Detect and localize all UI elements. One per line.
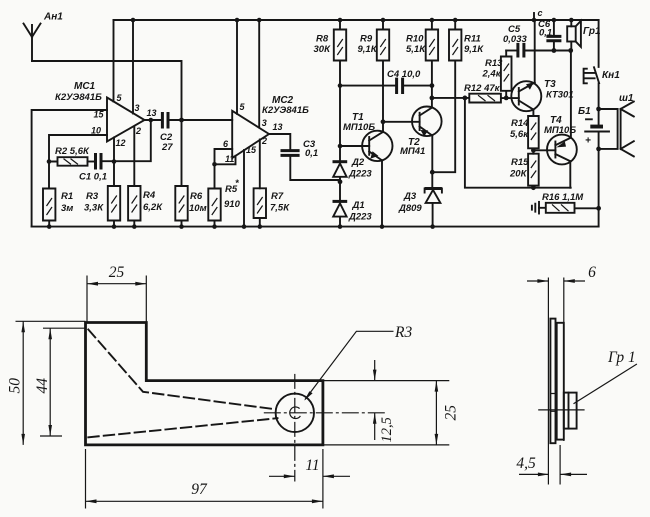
svg-text:44: 44: [34, 378, 51, 394]
svg-text:97: 97: [191, 481, 208, 498]
svg-text:20К: 20К: [509, 169, 528, 180]
svg-text:Д223: Д223: [348, 212, 372, 223]
svg-text:0,1: 0,1: [539, 28, 552, 39]
transistor Q4 T4 MP10B: [533, 115, 576, 164]
wire bottom ground bus: [32, 226, 599, 228]
svg-text:К2УЭ841Б: К2УЭ841Б: [262, 105, 309, 116]
svg-text:3: 3: [135, 103, 140, 113]
svg-text:Д223: Д223: [348, 169, 372, 180]
svg-text:КТ301: КТ301: [546, 90, 574, 101]
diode D2 D223: [333, 157, 373, 201]
svg-text:R6: R6: [190, 191, 203, 202]
svg-text:+: +: [585, 136, 591, 147]
svg-text:15: 15: [246, 145, 257, 155]
svg-text:R2 5,6К: R2 5,6К: [55, 146, 90, 157]
svg-text:R12 47к: R12 47к: [464, 83, 501, 94]
svg-text:4,5: 4,5: [516, 455, 536, 472]
svg-text:15: 15: [93, 110, 104, 120]
wire MC2 pin 2 to R7: [260, 136, 267, 188]
speaker magnet side view: [564, 393, 577, 429]
wire T3 collector to bus: [532, 18, 537, 83]
svg-text:R15: R15: [511, 157, 529, 168]
svg-text:7,5К: 7,5К: [270, 203, 290, 214]
wire antenna to C2 node vertical: [32, 61, 182, 186]
svg-text:27: 27: [161, 142, 173, 153]
resistor R5: [208, 178, 240, 229]
wire MC2 pin 3 to bus: [257, 18, 267, 128]
ground symbol: [532, 202, 539, 214]
svg-text:2,4к: 2,4к: [482, 69, 502, 80]
side view plate lines: [548, 278, 563, 485]
dim 44: [34, 328, 86, 436]
resistor R14: [510, 110, 539, 154]
speaker Gr1: [567, 18, 601, 51]
hole center lines: [264, 374, 387, 482]
transistor Q2 T2 MP41: [383, 107, 442, 158]
connector Sh1: [599, 93, 634, 156]
svg-text:R16 1,1М: R16 1,1М: [542, 192, 584, 203]
svg-text:6: 6: [588, 264, 596, 281]
leader R3: [304, 324, 412, 401]
svg-text:12,5: 12,5: [379, 417, 395, 442]
wire R12 node to emitter line: [465, 98, 571, 190]
svg-text:R14: R14: [511, 118, 529, 129]
side view center line: [538, 409, 584, 411]
resistor R9: [358, 18, 390, 132]
capacitor C2: [160, 112, 232, 153]
svg-text:910: 910: [224, 199, 241, 210]
dim 11: [269, 457, 350, 478]
svg-text:С1 0,1: С1 0,1: [79, 172, 107, 183]
resistor R10: [406, 18, 438, 108]
resistor R7: [254, 188, 291, 229]
svg-text:Т3: Т3: [544, 79, 556, 90]
resistor R16: [539, 192, 599, 213]
resistor R12: [432, 83, 519, 103]
resistor R8: [314, 18, 347, 162]
diode D1 D223: [333, 200, 373, 229]
svg-text:10м: 10м: [189, 203, 207, 214]
svg-text:12: 12: [116, 138, 126, 148]
svg-text:R9: R9: [360, 34, 373, 45]
battery B1: [578, 106, 609, 227]
svg-text:R3: R3: [394, 324, 412, 341]
svg-text:50: 50: [7, 378, 24, 394]
svg-text:11: 11: [225, 154, 234, 164]
wire MC1 pin 13 output node: [145, 108, 162, 122]
wire MC2 pin 5 to bus: [235, 18, 246, 114]
svg-text:МП41: МП41: [400, 146, 425, 157]
bracket bend line lower dashed: [88, 418, 277, 437]
svg-text:Д2: Д2: [351, 157, 365, 168]
svg-text:5,6к: 5,6к: [510, 129, 529, 140]
svg-text:Д1: Д1: [352, 200, 365, 211]
svg-text:0,033: 0,033: [503, 34, 527, 45]
wire MC2 pin 13 output: [269, 122, 290, 150]
wire MC1 pin 2 to R4: [134, 126, 141, 186]
resistor R1: [43, 162, 73, 229]
svg-text:13: 13: [273, 122, 283, 132]
capacitor C4: [340, 69, 432, 94]
wire MC1 pin 5 to bus: [114, 20, 123, 103]
dim 4,5: [516, 455, 587, 476]
svg-text:Ан1: Ан1: [43, 12, 63, 23]
resistor R15: [509, 154, 539, 188]
svg-text:R8: R8: [316, 34, 329, 45]
op-amp U1 MC1 K2UE841B: [55, 81, 145, 142]
svg-text:МП10Б: МП10Б: [343, 122, 375, 133]
svg-text:6,2К: 6,2К: [143, 202, 163, 213]
diode D3 D809 zener: [398, 189, 442, 229]
svg-text:С4 10,0: С4 10,0: [387, 69, 421, 80]
resistor R2: [49, 146, 90, 166]
resistor R4: [128, 186, 163, 229]
svg-text:Д3: Д3: [403, 191, 417, 202]
svg-text:25: 25: [443, 405, 460, 421]
capacitor C6: [538, 18, 561, 51]
svg-text:3: 3: [262, 118, 267, 128]
svg-text:5,1К: 5,1К: [406, 44, 426, 55]
svg-text:К2УЭ841Б: К2УЭ841Б: [55, 92, 102, 103]
svg-text:2: 2: [261, 136, 267, 146]
side view plate body: [550, 319, 563, 444]
antenna An1: [24, 12, 64, 62]
svg-text:9,1К: 9,1К: [358, 44, 378, 55]
transistor Q3 T3 KT301: [511, 79, 573, 111]
wire MC1 pin 12: [112, 138, 126, 164]
svg-text:10: 10: [91, 126, 101, 136]
svg-text:0,1: 0,1: [305, 148, 318, 159]
wire feedback output to C1: [102, 120, 151, 161]
wire MC1 pin 15 to ground: [32, 110, 107, 227]
svg-text:с: с: [538, 8, 543, 18]
svg-text:R7: R7: [271, 191, 284, 202]
wire MC2 pin 15 to ground: [242, 145, 257, 229]
wire T2 emitter: [430, 136, 435, 189]
op-amp U2 MC2 K2UE841B: [232, 95, 309, 158]
svg-text:R13: R13: [485, 58, 503, 69]
svg-text:Гр 1: Гр 1: [607, 349, 636, 366]
svg-text:R10: R10: [406, 34, 424, 45]
dim 25 top: [87, 264, 146, 381]
bracket outline left view: [86, 323, 323, 445]
svg-text:R1: R1: [61, 191, 73, 202]
svg-text:Б1: Б1: [578, 106, 591, 117]
transistor Q1 T1 MP10B: [340, 112, 392, 161]
svg-text:R11: R11: [464, 34, 481, 45]
svg-text:МС1: МС1: [74, 81, 96, 92]
wire T1 emitter to ground: [380, 160, 385, 229]
bracket bend line upper dashed: [88, 330, 273, 410]
resistor R11: [432, 18, 484, 173]
dim 97: [86, 449, 323, 509]
svg-text:11: 11: [305, 457, 319, 474]
resistor R3: [84, 162, 120, 229]
leader Gr1: [574, 349, 637, 404]
svg-text:ш1: ш1: [619, 93, 634, 104]
wire MC2 pins 6 and 11: [212, 139, 235, 189]
svg-text:2: 2: [135, 126, 141, 136]
dim 50: [7, 321, 86, 445]
capacitor C3: [281, 139, 340, 180]
wire MC1 pin 3 to bus: [131, 18, 140, 114]
svg-text:Кн1: Кн1: [602, 70, 620, 81]
svg-text:R4: R4: [143, 190, 156, 201]
svg-text:3,3К: 3,3К: [84, 203, 104, 214]
svg-text:9,1К: 9,1К: [464, 44, 484, 55]
resistor R6: [175, 186, 206, 229]
svg-text:R3: R3: [86, 191, 99, 202]
resistor R13: [482, 51, 512, 101]
svg-text:Д809: Д809: [398, 203, 422, 214]
capacitor C1: [79, 153, 107, 183]
hole R3 circle: [276, 394, 314, 432]
wire T4 collector up: [570, 51, 572, 138]
svg-text:25: 25: [109, 264, 125, 281]
pushbutton Kn1: [584, 20, 621, 125]
wire MC1 pin 10: [47, 126, 107, 164]
dim 25 right: [323, 381, 460, 445]
dim 6: [527, 264, 596, 283]
svg-text:13: 13: [147, 108, 157, 118]
wire top supply bus: [114, 19, 599, 21]
node c label: [534, 8, 543, 19]
capacitor C5: [503, 24, 573, 58]
dim 12,5: [373, 360, 395, 443]
svg-text:3м: 3м: [61, 203, 73, 214]
wire T4 emitter down: [569, 161, 571, 188]
svg-text:30К: 30К: [314, 44, 332, 55]
